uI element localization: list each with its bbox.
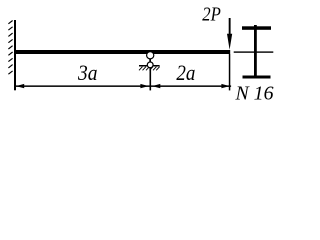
dim arrow right (tip right at beam end): [221, 84, 229, 88]
load arrow 2P head: [227, 34, 232, 50]
support roller circle: [147, 62, 153, 68]
I-beam section bottom flange: [243, 76, 271, 79]
svg-text:2a: 2a: [176, 60, 195, 85]
support ground hatching: [139, 67, 160, 71]
fixed wall line: [14, 20, 16, 90]
I-beam section axis line: [234, 51, 274, 52]
I-beam section web: [254, 25, 257, 76]
dimension line 3a+2a: [16, 85, 231, 87]
dim arrow left (at wall, tip left): [16, 84, 24, 88]
right extension line: [229, 54, 231, 90]
support stem: [149, 56, 151, 64]
support hinge circle: [147, 52, 154, 59]
dim arrow mid-left (tip right at support): [140, 84, 148, 88]
wall hatching: [8, 21, 12, 75]
svg-text:3a: 3a: [77, 60, 97, 85]
svg-text:N 16: N 16: [235, 83, 275, 105]
dim arrow mid-right (tip left at support): [152, 84, 160, 88]
svg-text:2P: 2P: [202, 4, 221, 26]
support extension line: [150, 65, 152, 90]
I-beam section top flange: [242, 26, 271, 30]
beam: [16, 50, 230, 54]
support ground line: [139, 65, 160, 67]
load arrow 2P line: [229, 18, 231, 35]
